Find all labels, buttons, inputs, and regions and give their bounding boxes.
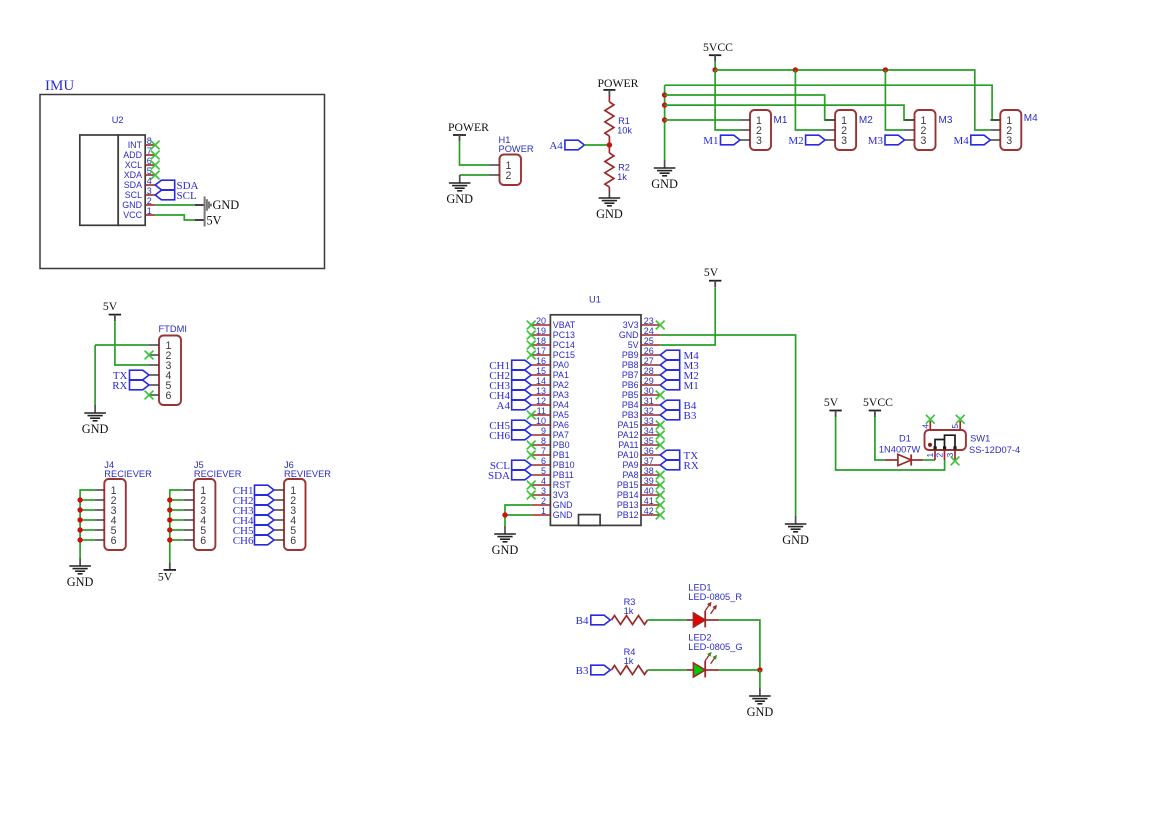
- netport SDA: [155, 180, 198, 192]
- svg-text:A4: A4: [549, 140, 563, 152]
- net label GND (rotated): [205, 196, 211, 213]
- svg-text:SS-12D07-4: SS-12D07-4: [969, 445, 1020, 455]
- svg-text:SW1: SW1: [970, 434, 990, 444]
- U1 right pins 23-42 with numbers and names: [617, 316, 660, 520]
- wire 5VCC stub: [714, 62, 716, 70]
- netport M4: [954, 135, 991, 147]
- svg-text:RX: RX: [684, 460, 699, 472]
- svg-text:IMU: IMU: [45, 78, 74, 94]
- diode D1: [885, 454, 924, 465]
- no-connect X FTDMI pin6: [145, 391, 154, 400]
- svg-text:4: 4: [147, 176, 152, 186]
- netport CH3 at J6: [233, 505, 274, 517]
- netport A4 at divider: [549, 140, 584, 152]
- svg-text:33: 33: [644, 416, 654, 426]
- svg-text:31: 31: [644, 396, 654, 406]
- svg-text:PB9: PB9: [622, 350, 639, 360]
- FTDMI pin stubs and numbers: [149, 340, 172, 402]
- wire LED2 to gnd: [719, 669, 760, 671]
- svg-text:XDA: XDA: [124, 170, 142, 180]
- netport RX at FTDMI: [112, 380, 149, 392]
- connector J5 body: [184, 479, 216, 550]
- svg-text:3: 3: [1006, 135, 1012, 147]
- svg-text:36: 36: [644, 446, 654, 456]
- junction LED gnd node: [757, 667, 762, 672]
- svg-text:PC15: PC15: [553, 350, 575, 360]
- svg-text:3: 3: [921, 135, 927, 147]
- netport B4 at U1: [660, 400, 697, 412]
- svg-text:3: 3: [541, 486, 546, 496]
- svg-text:FTDMI: FTDMI: [159, 324, 187, 334]
- svg-text:PB15: PB15: [617, 480, 639, 490]
- svg-text:U2: U2: [112, 115, 124, 125]
- svg-text:PB13: PB13: [617, 500, 639, 510]
- svg-text:19: 19: [536, 326, 546, 336]
- wire gnd bus vertical: [664, 85, 666, 160]
- svg-text:VCC: VCC: [123, 210, 142, 220]
- svg-text:POWER: POWER: [499, 144, 534, 154]
- svg-text:GND: GND: [619, 330, 639, 340]
- svg-text:M1: M1: [703, 135, 718, 147]
- svg-text:1: 1: [541, 506, 546, 516]
- svg-text:4: 4: [541, 476, 546, 486]
- svg-text:1k: 1k: [624, 606, 634, 616]
- svg-text:B3: B3: [576, 665, 589, 677]
- wire gnd bus to M2 pin1: [665, 95, 836, 120]
- svg-text:5V: 5V: [158, 570, 173, 583]
- svg-text:3: 3: [841, 135, 847, 147]
- svg-text:3: 3: [147, 186, 152, 196]
- wire 5V to SW1 pin2: [836, 417, 945, 470]
- connector FTDMI body: [159, 336, 181, 406]
- svg-text:LED2: LED2: [688, 633, 711, 643]
- svg-text:PA11: PA11: [618, 440, 638, 450]
- svg-text:GND: GND: [67, 575, 94, 589]
- netport CH1 at J6: [233, 485, 274, 497]
- svg-text:GND: GND: [596, 207, 623, 221]
- wire 5VCC rail to M4: [715, 70, 990, 130]
- svg-text:28: 28: [644, 366, 654, 376]
- svg-text:XCL: XCL: [125, 160, 142, 170]
- svg-text:R1: R1: [618, 116, 630, 126]
- svg-text:16: 16: [536, 356, 546, 366]
- svg-text:7: 7: [541, 446, 546, 456]
- netport CH6 at J6: [233, 535, 274, 547]
- svg-text:VBAT: VBAT: [553, 320, 576, 330]
- wire gnd bus to M3 pin1: [665, 105, 915, 120]
- wire rail drop to M2 pin2: [795, 70, 825, 130]
- svg-text:5VCC: 5VCC: [863, 396, 893, 409]
- ground GND below J4: [67, 558, 94, 589]
- svg-text:30: 30: [644, 386, 654, 396]
- svg-text:1N4007W: 1N4007W: [879, 445, 921, 455]
- junctions J5 bus: [167, 497, 172, 542]
- svg-text:6: 6: [111, 535, 117, 547]
- svg-text:M1: M1: [684, 380, 699, 392]
- svg-text:3: 3: [945, 453, 955, 458]
- netport M2 at U1: [660, 370, 699, 382]
- svg-text:24: 24: [644, 326, 654, 336]
- junction U1 gnd: [502, 512, 507, 517]
- svg-text:PB7: PB7: [622, 370, 639, 380]
- wire 5VCC drop to M1 pin2: [715, 70, 740, 130]
- svg-text:13: 13: [536, 386, 546, 396]
- svg-text:GND: GND: [82, 422, 109, 436]
- junction gnd bus M2: [662, 92, 667, 97]
- svg-text:12: 12: [536, 396, 546, 406]
- svg-text:40: 40: [644, 486, 654, 496]
- U1 left no-connect X marks: [527, 321, 536, 500]
- svg-text:4: 4: [920, 424, 930, 429]
- svg-text:41: 41: [644, 496, 654, 506]
- svg-text:5V: 5V: [207, 214, 222, 228]
- svg-text:LED-0805_R: LED-0805_R: [688, 592, 742, 602]
- svg-text:GND: GND: [553, 500, 573, 510]
- wire 5VCC to D1: [875, 417, 885, 460]
- netport CH2 at U1: [489, 370, 531, 382]
- svg-text:M3: M3: [868, 135, 884, 147]
- netport TX at U1: [660, 450, 698, 462]
- svg-text:PB14: PB14: [617, 490, 639, 500]
- no-connect X pin 5: [151, 171, 160, 180]
- svg-text:5V: 5V: [704, 266, 719, 279]
- svg-text:RST: RST: [553, 480, 571, 490]
- netport RX at U1: [660, 460, 699, 472]
- ground GND at H1: [446, 175, 473, 206]
- svg-text:20: 20: [536, 316, 546, 326]
- svg-text:1k: 1k: [624, 656, 634, 666]
- net label 5V at switch: [824, 396, 842, 417]
- svg-text:ADD: ADD: [123, 150, 142, 160]
- svg-text:GND: GND: [122, 200, 142, 210]
- SW1 pin numbers: [920, 424, 960, 458]
- connector M1 body: [740, 110, 771, 150]
- no-connect X pin 6: [151, 161, 160, 170]
- no-connect X pin 7: [151, 151, 160, 160]
- svg-text:SCL: SCL: [125, 190, 142, 200]
- svg-text:2: 2: [541, 496, 546, 506]
- svg-text:2: 2: [147, 196, 152, 206]
- svg-text:1: 1: [925, 453, 935, 458]
- svg-text:27: 27: [644, 356, 654, 366]
- net label POWER at R1: [598, 77, 639, 96]
- netport CH5 at U1: [489, 420, 531, 432]
- H1 pin stubs: [490, 165, 500, 175]
- connector J6 body: [274, 479, 306, 550]
- svg-text:GND: GND: [213, 198, 240, 212]
- svg-text:1k: 1k: [617, 172, 627, 182]
- netport M1 at U1: [660, 380, 699, 392]
- LED LED1 red: [687, 602, 719, 628]
- svg-text:39: 39: [644, 476, 654, 486]
- svg-text:17: 17: [536, 346, 546, 356]
- svg-text:PB8: PB8: [622, 360, 639, 370]
- svg-text:LED-0805_G: LED-0805_G: [688, 642, 742, 652]
- U1 right no-connect X marks: [656, 321, 665, 520]
- svg-text:B4: B4: [576, 615, 589, 627]
- wire R3 to LED1: [648, 619, 688, 621]
- svg-text:SDA: SDA: [488, 470, 510, 482]
- svg-text:PB5: PB5: [622, 390, 639, 400]
- svg-text:PA2: PA2: [553, 380, 569, 390]
- svg-text:35: 35: [644, 436, 654, 446]
- svg-text:PA9: PA9: [622, 460, 638, 470]
- svg-text:34: 34: [644, 426, 654, 436]
- netport A4 at U1: [497, 400, 532, 412]
- svg-text:RX: RX: [112, 380, 127, 392]
- wire A4 to divider node: [584, 144, 609, 146]
- junctions J4 bus: [77, 497, 82, 542]
- netport M3: [868, 135, 905, 147]
- svg-text:PB10: PB10: [553, 460, 575, 470]
- net label 5V above U1: [704, 266, 722, 287]
- junction rail M2 drop: [793, 67, 798, 72]
- svg-text:SCL: SCL: [177, 190, 197, 202]
- svg-text:PA6: PA6: [553, 420, 569, 430]
- ground GND below U1: [492, 526, 519, 557]
- svg-text:32: 32: [644, 406, 654, 416]
- resistor R3: [612, 616, 648, 625]
- svg-text:3V3: 3V3: [623, 320, 639, 330]
- svg-text:5V: 5V: [103, 300, 118, 313]
- connector M4 body: [990, 110, 1021, 150]
- svg-text:INT: INT: [128, 140, 143, 150]
- svg-text:6: 6: [541, 456, 546, 466]
- resistor R1: [605, 96, 614, 145]
- junction gnd bus M3: [662, 102, 667, 107]
- ground GND below LEDs: [747, 688, 774, 719]
- svg-text:23: 23: [644, 316, 654, 326]
- connector M3 body: [905, 110, 936, 150]
- net label 5VCC at switch: [863, 396, 893, 417]
- svg-text:RECIEVER: RECIEVER: [104, 469, 152, 479]
- netport CH1 at U1: [489, 360, 531, 372]
- netport CH4 at J6: [233, 515, 274, 527]
- netport SCL at U1: [490, 460, 531, 472]
- wire LED1 to gnd corner: [719, 620, 760, 670]
- no-connect X pin 8: [151, 141, 160, 150]
- svg-text:25: 25: [644, 336, 654, 346]
- svg-text:SDA: SDA: [124, 180, 142, 190]
- svg-text:REVIEVER: REVIEVER: [284, 469, 331, 479]
- svg-text:PA1: PA1: [553, 370, 569, 380]
- svg-text:18: 18: [536, 336, 546, 346]
- svg-text:PA7: PA7: [553, 430, 569, 440]
- svg-text:PA0: PA0: [553, 360, 569, 370]
- no-connect X FTDMI pin2: [145, 351, 154, 360]
- wire R4 to LED2: [648, 669, 688, 671]
- svg-text:R2: R2: [618, 163, 630, 173]
- svg-text:26: 26: [644, 346, 654, 356]
- svg-text:B3: B3: [684, 410, 697, 422]
- svg-text:8: 8: [541, 436, 546, 446]
- net label 5V at FTDMI: [103, 300, 121, 321]
- svg-text:PC14: PC14: [553, 340, 575, 350]
- wire U2 pin1 to 5V: [155, 215, 204, 220]
- connector J4 body: [94, 479, 126, 550]
- H1 pin numbers: [506, 160, 512, 182]
- svg-text:U1: U1: [589, 295, 601, 305]
- svg-text:M1: M1: [774, 115, 788, 126]
- svg-text:6: 6: [166, 390, 172, 402]
- svg-text:38: 38: [644, 466, 654, 476]
- svg-text:5VCC: 5VCC: [703, 41, 733, 54]
- svg-text:PA10: PA10: [618, 450, 639, 460]
- ground GND right of U1: [782, 516, 809, 547]
- svg-text:11: 11: [537, 406, 546, 416]
- svg-text:37: 37: [644, 456, 654, 466]
- svg-text:GND: GND: [553, 510, 573, 520]
- svg-text:9: 9: [541, 426, 546, 436]
- net label POWER: [448, 121, 489, 141]
- svg-text:RECIEVER: RECIEVER: [194, 469, 242, 479]
- ground GND at FTDMI: [82, 405, 109, 436]
- svg-text:GND: GND: [492, 543, 519, 557]
- svg-text:42: 42: [644, 506, 654, 516]
- netport M3 at U1: [660, 360, 699, 372]
- ground GND motor bus: [651, 160, 678, 191]
- U1 left pins 20-1 with numbers and names: [531, 316, 576, 520]
- svg-text:GND: GND: [651, 177, 678, 191]
- svg-text:3V3: 3V3: [553, 490, 569, 500]
- svg-text:PC13: PC13: [553, 330, 575, 340]
- svg-text:M4: M4: [1024, 113, 1038, 124]
- svg-text:PB4: PB4: [622, 400, 639, 410]
- IC U2 body: [80, 135, 145, 225]
- svg-text:GND: GND: [782, 533, 809, 547]
- resistor R4: [612, 666, 648, 675]
- svg-text:POWER: POWER: [448, 121, 489, 134]
- svg-text:GND: GND: [747, 705, 774, 719]
- svg-text:2: 2: [506, 170, 512, 182]
- netport M2: [788, 135, 825, 147]
- netport CH4 at U1: [489, 390, 531, 402]
- no-connect X SW1 pin3: [951, 457, 960, 466]
- svg-text:6: 6: [290, 535, 296, 547]
- svg-text:PB0: PB0: [553, 440, 570, 450]
- wire U1 pin24 GND: [660, 335, 795, 516]
- no-connect X SW1 pin5: [956, 415, 965, 424]
- junction 5VCC rail: [712, 67, 717, 72]
- switch SW1 body: [925, 421, 966, 460]
- svg-text:D1: D1: [899, 433, 911, 443]
- wire LED node down: [759, 670, 761, 688]
- connector H1 body: [500, 155, 522, 186]
- netport B3 at LED2: [576, 665, 611, 677]
- wire POWER to H1 pin1: [460, 141, 490, 165]
- svg-text:PB12: PB12: [617, 510, 639, 520]
- svg-text:A4: A4: [497, 400, 511, 412]
- wires J4 pins to gnd bus: [80, 490, 94, 558]
- svg-text:14: 14: [536, 376, 546, 386]
- svg-text:GND: GND: [446, 192, 473, 206]
- svg-text:29: 29: [644, 376, 654, 386]
- junction divider node: [607, 142, 612, 147]
- svg-text:PA4: PA4: [553, 400, 569, 410]
- wire rail drop to M3 pin2: [885, 70, 904, 130]
- svg-text:M4: M4: [954, 135, 970, 147]
- net label 5V below J5: [158, 563, 176, 584]
- svg-text:CH6: CH6: [489, 430, 510, 442]
- no-connect X SW1 pin4: [926, 415, 935, 424]
- wire 5V to U1 pin25: [660, 287, 715, 345]
- svg-text:PA5: PA5: [553, 410, 569, 420]
- svg-text:5V: 5V: [824, 396, 839, 409]
- net label 5V (rotated): [205, 214, 222, 228]
- svg-text:PB11: PB11: [553, 470, 574, 480]
- wire gnd bus to M1 pin1: [665, 119, 740, 121]
- svg-text:3: 3: [756, 135, 762, 147]
- netport B4 at LED1: [576, 615, 611, 627]
- svg-text:5: 5: [950, 424, 960, 429]
- svg-text:CH6: CH6: [233, 535, 254, 547]
- wire U2 pin2 to GND: [155, 204, 204, 206]
- netport CH3 at U1: [489, 380, 531, 392]
- svg-text:PB3: PB3: [622, 410, 639, 420]
- svg-text:PA12: PA12: [618, 430, 639, 440]
- netport SDA at U1: [488, 470, 531, 482]
- wires J5 pins to 5V bus: [170, 490, 184, 563]
- resistor R2: [605, 145, 614, 190]
- netport CH5 at J6: [233, 525, 274, 537]
- svg-text:PB1: PB1: [553, 450, 570, 460]
- wire 5V to FTDMI pin3: [115, 321, 149, 365]
- wire U1 pins1-2 to GND: [505, 505, 531, 526]
- netport CH6 at U1: [489, 430, 531, 442]
- svg-text:10: 10: [536, 416, 546, 426]
- svg-text:PA8: PA8: [622, 470, 638, 480]
- U2 pins 8-1 with numbers and names: [122, 136, 155, 220]
- svg-text:10k: 10k: [617, 126, 632, 136]
- ground GND below R2: [596, 190, 623, 221]
- svg-text:POWER: POWER: [598, 77, 639, 90]
- svg-text:LED1: LED1: [688, 583, 711, 593]
- LED LED2 green: [687, 652, 719, 678]
- junction gnd bus M1: [662, 117, 667, 122]
- netport M1: [703, 135, 740, 147]
- net label 5VCC (motors): [703, 41, 733, 62]
- svg-text:M2: M2: [859, 115, 873, 126]
- wire H1 pin2 to GND: [460, 174, 490, 176]
- connector M2 body: [825, 110, 856, 150]
- svg-text:2: 2: [935, 453, 945, 458]
- svg-text:5V: 5V: [628, 340, 639, 350]
- junction rail M3 drop: [883, 67, 888, 72]
- netport TX at FTDMI: [113, 370, 149, 382]
- netport M4 at U1: [660, 350, 699, 362]
- svg-text:6: 6: [200, 535, 206, 547]
- netport CH2 at J6: [233, 495, 274, 507]
- wire gnd bus to M4 pin1: [665, 85, 1001, 120]
- svg-text:PB6: PB6: [622, 380, 639, 390]
- svg-text:PA3: PA3: [553, 390, 569, 400]
- svg-text:15: 15: [536, 366, 546, 376]
- netport SCL: [155, 190, 197, 202]
- svg-text:PA15: PA15: [618, 420, 639, 430]
- svg-text:5: 5: [541, 466, 546, 476]
- IMU frame: [40, 95, 325, 269]
- netport B3 at U1: [660, 410, 697, 422]
- wire FTDMI pin1 to GND: [95, 345, 149, 405]
- wire D1 to SW1 pin1: [923, 459, 935, 461]
- svg-text:M3: M3: [939, 115, 953, 126]
- microcontroller U1 body: [550, 315, 641, 526]
- svg-text:1: 1: [147, 206, 152, 216]
- svg-text:M2: M2: [788, 135, 803, 147]
